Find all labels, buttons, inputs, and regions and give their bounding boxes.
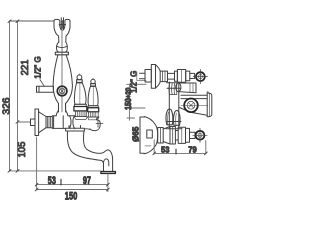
svg-text:97: 97	[83, 174, 91, 186]
handle 1 porcelain body	[74, 83, 86, 104]
riser base flare into body	[56, 104, 68, 116]
dimension 326 line	[9, 21, 11, 171]
flange cone	[39, 112, 46, 133]
middle column of body	[169, 82, 179, 128]
ring	[186, 128, 190, 142]
handle 1 ball top	[77, 75, 82, 80]
svg-text:Ø65: Ø65	[130, 126, 140, 142]
dim line 53/79	[154, 152, 206, 154]
spout curved tube top edge	[83, 131, 112, 171]
handle 2 porcelain body	[88, 86, 98, 105]
handle 2 ferrule	[88, 106, 98, 108]
bonnet collar 1	[74, 117, 87, 120]
riser collar	[55, 52, 68, 55]
dim 53/79 extension right	[205, 141, 207, 154]
body waist curves	[69, 116, 75, 129]
valve bonnet 2	[89, 112, 99, 117]
bell inner pipe	[147, 130, 153, 138]
extension line bottom (spout outlet level)	[10, 170, 102, 172]
wall flange disc left view	[35, 109, 39, 136]
top union: crosshair circle	[196, 72, 205, 81]
svg-text:326: 326	[2, 97, 13, 114]
top union: ring1	[175, 71, 178, 81]
riser leaf flare	[53, 55, 72, 112]
knurled ring	[46, 117, 52, 128]
valve bonnet 1	[75, 111, 86, 116]
rings	[170, 127, 175, 145]
svg-text:79: 79	[188, 145, 197, 155]
riser column upper vase	[56, 42, 67, 52]
faucet body left view	[52, 116, 75, 129]
extension line from wall plane down	[36, 137, 38, 190]
spout outlet lip	[101, 172, 116, 174]
levers bottom	[166, 109, 173, 125]
handle 2 neck collar	[91, 84, 96, 87]
svg-text:221: 221	[20, 60, 31, 76]
leader 1/2"G right	[137, 72, 146, 81]
cradle hook post	[60, 18, 62, 30]
extension line top (fork top level)	[10, 20, 55, 22]
dimension line 53/97	[37, 184, 108, 186]
divider tick 53/97	[60, 179, 62, 185]
spout inner bend arc	[104, 159, 109, 166]
knurled nut circle on riser	[57, 86, 67, 96]
cradle bowl	[60, 25, 65, 31]
bell neck rings	[158, 128, 164, 144]
bottom union: flange bell	[140, 117, 158, 154]
cylinder block	[178, 127, 185, 143]
spout horn rim	[207, 93, 212, 117]
top union: ring2	[186, 71, 190, 81]
svg-text:105: 105	[17, 141, 28, 157]
dimension 150+20 line	[128, 84, 130, 120]
svg-text:53: 53	[48, 174, 56, 186]
top union: bell trumpet	[156, 65, 161, 88]
handshower cradle fork	[54, 19, 60, 27]
top union: square nut	[145, 70, 151, 83]
pipe	[175, 131, 178, 141]
handle 2 ball top	[91, 79, 95, 83]
dim 53/79 extension left	[153, 140, 155, 154]
boss circle on horn	[184, 99, 198, 113]
svg-text:53: 53	[161, 145, 170, 155]
bottom crosshair circle	[196, 131, 205, 140]
top union: flange disc	[151, 65, 155, 89]
spout curved tube bottom edge	[67, 131, 103, 171]
handle 1 neck collar	[77, 80, 83, 83]
top union: pipe	[168, 73, 175, 79]
spout horn body	[181, 95, 207, 98]
dimension 221/105 line	[17, 21, 19, 171]
tick at spout axis (221/105 split)	[18, 121, 31, 123]
top union: neck	[190, 73, 195, 78]
small levers top	[169, 84, 177, 95]
dimension line 150	[37, 189, 108, 191]
svg-text:1/2" G: 1/2" G	[34, 56, 43, 78]
spout socket collar	[66, 126, 85, 132]
svg-text:150: 150	[123, 98, 133, 110]
wall bracket of riser	[37, 86, 54, 92]
divider tick	[175, 149, 177, 154]
svg-text:150: 150	[65, 189, 77, 202]
extension line from spout outlet down	[107, 174, 109, 192]
horn centerline	[181, 104, 208, 106]
neck	[190, 132, 196, 138]
top union: ribbed ring	[160, 71, 167, 82]
handle 1 ferrule	[74, 104, 86, 106]
leader 1/2"G left	[40, 80, 44, 87]
tick near bell	[145, 145, 151, 147]
top union: pipe stub	[140, 73, 146, 78]
fork bowl to stem	[54, 28, 70, 43]
cone	[163, 127, 170, 145]
bonnet collar 2	[88, 117, 99, 120]
wall union nut left view	[31, 119, 36, 126]
body right knob	[90, 117, 100, 131]
top union: block	[177, 70, 185, 83]
riser centerline	[61, 31, 63, 112]
svg-text:1/2" G: 1/2" G	[130, 71, 139, 93]
diverter tube cap	[176, 83, 181, 92]
